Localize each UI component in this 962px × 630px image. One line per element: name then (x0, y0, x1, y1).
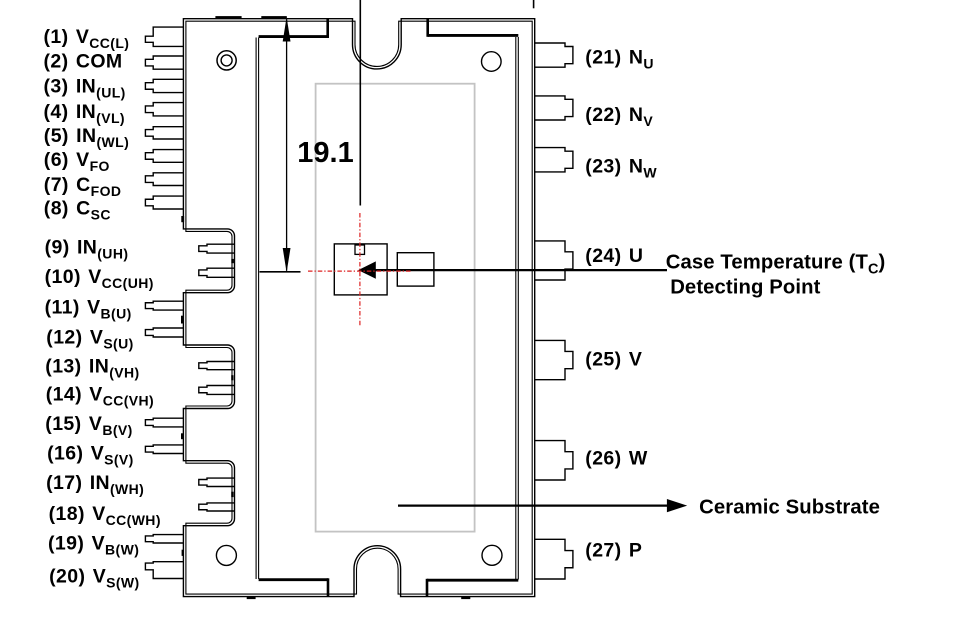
pin 23 lead NW (534, 148, 573, 172)
red crosshair horizontal (308, 270, 411, 272)
short extension line top right (533, 0, 535, 8)
mounting hole bottom-left (216, 545, 236, 565)
pin 2 lead COM (145, 56, 185, 69)
pin 7 lead CFOD (145, 173, 185, 186)
svg-text:Case Temperature (TC): Case Temperature (TC) (666, 252, 886, 278)
svg-text:(6) VFO: (6) VFO (44, 149, 110, 174)
bottom edge tab mark right (461, 597, 470, 599)
lid step top-left (326, 19, 329, 38)
mounting hole top-left (double circle) (217, 51, 236, 70)
svg-text:(13) IN(VH): (13) IN(VH) (45, 356, 139, 381)
lid step top-right (426, 19, 429, 37)
package case outer outline (183, 19, 534, 597)
pin 19 lead VB(W) (145, 535, 185, 543)
edge mark between pins 9-10 (231, 259, 234, 263)
svg-text:(10) VCC(UH): (10) VCC(UH) (45, 266, 154, 291)
svg-text:(25) V: (25) V (585, 348, 642, 370)
svg-text:19.1: 19.1 (297, 137, 353, 169)
dimension line 19.1 (286, 20, 288, 271)
square right of chip (397, 253, 434, 286)
pin 11 lead VB(U) (145, 301, 185, 310)
pin 4 lead IN(VL) (145, 103, 185, 116)
lid top-left ledge (259, 35, 328, 38)
svg-text:(5) IN(WL): (5) IN(WL) (44, 125, 129, 150)
svg-text:(11) VB(U): (11) VB(U) (45, 297, 132, 322)
pin 18 lead VCC(WH) (199, 503, 235, 511)
pin 25 lead V (534, 340, 573, 379)
lid bottom-left ledge (259, 578, 328, 581)
case temperature arrow (375, 269, 667, 271)
svg-text:(27) P: (27) P (585, 539, 642, 561)
lid bottom-right ledge (427, 579, 518, 582)
svg-text:(16) VS(V): (16) VS(V) (47, 443, 134, 468)
pin 27 lead P (534, 539, 573, 579)
svg-text:(21) NU: (21) NU (585, 47, 654, 72)
lid step bottom-right (426, 579, 429, 596)
svg-text:(2) COM: (2) COM (44, 51, 123, 73)
svg-text:(23) NW: (23) NW (585, 156, 657, 181)
pin 20 lead VS(W) (145, 562, 185, 579)
pin 24 lead U (534, 241, 573, 280)
pin 26 lead W (534, 441, 573, 480)
pin 14 lead VCC(VH) (199, 386, 235, 395)
package case inner outline (186, 21, 532, 594)
small square on chip (355, 245, 365, 254)
red crosshair vertical (359, 213, 361, 327)
bottom edge tab mark left (247, 597, 256, 599)
svg-text:(18) VCC(WH): (18) VCC(WH) (49, 503, 161, 528)
lid right vertical lines (515, 37, 517, 580)
svg-text:(4) IN(VL): (4) IN(VL) (44, 101, 125, 126)
lid step bottom-left (327, 578, 330, 596)
pin 13 lead IN(VH) (199, 362, 235, 370)
pin 3 lead IN(UL) (145, 79, 185, 92)
svg-text:(1) VCC(L): (1) VCC(L) (44, 26, 130, 51)
mounting hole top-right (482, 52, 502, 72)
pin 17 lead IN(WH) (199, 478, 235, 486)
pin 12 lead VS(U) (145, 328, 185, 337)
svg-text:(12) VS(U): (12) VS(U) (46, 326, 133, 351)
vertical centerline (359, 0, 361, 206)
svg-text:(7) CFOD: (7) CFOD (44, 174, 122, 199)
lid top-right ledge (428, 34, 519, 37)
edge mark below pin 8 (181, 216, 184, 222)
pin 21 lead NU (534, 43, 573, 67)
svg-text:(17) IN(WH): (17) IN(WH) (46, 472, 144, 497)
svg-text:(22) NV: (22) NV (585, 104, 653, 129)
svg-text:(14) VCC(VH): (14) VCC(VH) (46, 384, 154, 409)
pin 10 lead VCC(UH) (199, 268, 235, 277)
svg-text:(26) W: (26) W (585, 447, 648, 469)
svg-text:(15) VB(V): (15) VB(V) (45, 413, 132, 438)
pin 6 lead VFO (145, 150, 185, 163)
pin 15 lead VB(V) (145, 418, 185, 427)
svg-text:(20) VS(W): (20) VS(W) (49, 565, 140, 590)
pin 5 lead IN(WL) (145, 127, 185, 139)
ceramic substrate arrow (398, 505, 670, 507)
top edge tab mark left (215, 16, 241, 19)
mounting hole bottom-right (482, 545, 502, 565)
Tc sensing chip square (334, 244, 387, 295)
svg-text:(8) CSC: (8) CSC (44, 198, 111, 223)
dimension extension tick (260, 271, 301, 273)
svg-text:(9) IN(UH): (9) IN(UH) (45, 236, 129, 261)
svg-text:(19) VB(W): (19) VB(W) (48, 533, 139, 558)
svg-text:(3) IN(UL): (3) IN(UL) (44, 76, 126, 101)
edge mark between pins 19-20 (182, 550, 184, 556)
pin 9 lead IN(UH) (199, 244, 235, 253)
edge mark between pins 17-18 (231, 492, 233, 497)
pin 16 lead VS(V) (145, 445, 185, 454)
edge mark between pins 11-12 (181, 316, 184, 324)
svg-text:(24) U: (24) U (585, 245, 643, 267)
pin 8 lead CSC (145, 196, 185, 209)
pin 1 lead VCC(L) (145, 27, 185, 46)
edge mark between pins 13-14 (231, 375, 233, 380)
svg-text:Detecting Point: Detecting Point (670, 277, 820, 299)
svg-text:Ceramic Substrate: Ceramic Substrate (699, 497, 880, 519)
top edge tab mark right (261, 16, 287, 19)
edge mark between pins 15-16 (181, 433, 183, 439)
pin 22 lead NV (534, 96, 573, 120)
lid left vertical lines (255, 38, 257, 580)
ceramic substrate outline (316, 84, 475, 532)
